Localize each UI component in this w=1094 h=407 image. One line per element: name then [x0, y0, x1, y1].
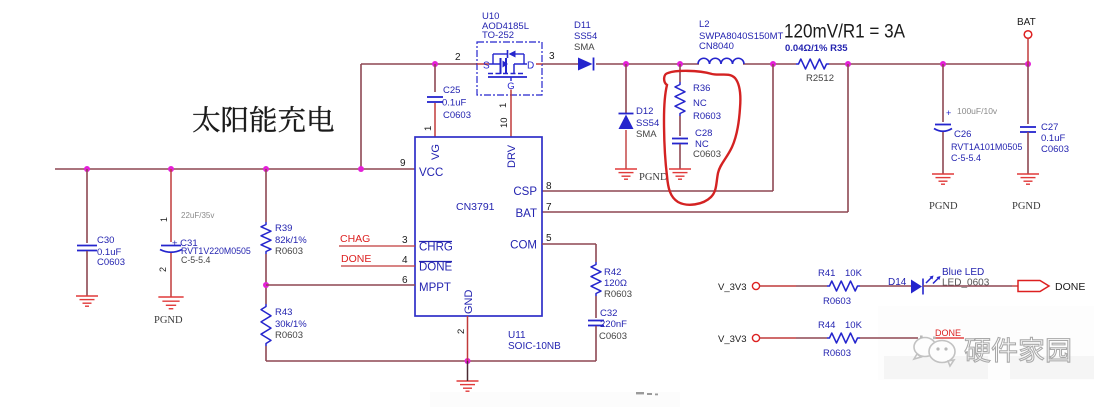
- pin number 4: [402, 255, 408, 266]
- svg-text:0.1uF: 0.1uF: [1041, 133, 1065, 144]
- wire: riser from top rail to VCC rail: [360, 64, 362, 170]
- label R44 R0603: [823, 348, 851, 359]
- svg-text:C0603: C0603: [97, 257, 125, 268]
- resistor R43: [261, 304, 271, 346]
- svg-text:C27: C27: [1041, 122, 1058, 133]
- op-amp U11 CN3791 body: [415, 137, 542, 316]
- resistor R35: [796, 59, 829, 69]
- wire: V_3V3 to R44: [760, 337, 827, 339]
- wire: D14 to DONE port: [923, 285, 1018, 287]
- svg-text:DONE: DONE: [1055, 281, 1085, 293]
- svg-text:COM: COM: [510, 240, 537, 252]
- svg-text:DRV: DRV: [506, 144, 518, 168]
- ground PGND at C26: [932, 174, 954, 184]
- label L2 SWPA8040S150MT CN8040: [699, 19, 784, 52]
- pin number 6: [402, 275, 408, 286]
- svg-text:DONE: DONE: [935, 328, 961, 338]
- pin number 5: [546, 233, 552, 244]
- label R39 82k/1% R0603: [275, 223, 307, 257]
- svg-text:PGND: PGND: [154, 315, 183, 326]
- transistor U10 P-MOSFET symbol: [477, 50, 542, 92]
- svg-text:C0603: C0603: [693, 149, 721, 160]
- wire: C25 branch from top rail: [434, 64, 436, 92]
- pin name MPPT: [419, 282, 451, 294]
- node: junction dots on VCC rail: [84, 166, 364, 172]
- svg-text:R0603: R0603: [823, 296, 851, 307]
- pin name DRV: [506, 144, 518, 168]
- wire: R41 to D14: [860, 285, 911, 287]
- svg-text:0.1uF: 0.1uF: [442, 98, 466, 109]
- svg-text:PGND: PGND: [929, 201, 958, 212]
- svg-text:2: 2: [455, 52, 461, 63]
- wire: R42 to C32: [595, 296, 597, 318]
- label R2512: [806, 73, 834, 84]
- label PGND (C31): [154, 315, 183, 326]
- svg-text:CSP: CSP: [513, 186, 537, 198]
- svg-text:CN3791: CN3791: [456, 201, 495, 213]
- svg-text:TO-252: TO-252: [482, 30, 514, 41]
- watermark text: [965, 337, 1070, 362]
- svg-text:3: 3: [402, 235, 408, 246]
- port DONE: [1018, 281, 1049, 292]
- wire: GND pin 2 stub: [467, 316, 469, 361]
- svg-text:C30: C30: [97, 235, 114, 246]
- svg-text:100uF/10v: 100uF/10v: [957, 106, 998, 116]
- pin name VCC: [419, 167, 443, 179]
- watermark icon: [914, 336, 955, 367]
- svg-text:V_3V3: V_3V3: [718, 334, 747, 345]
- svg-text:CHAG: CHAG: [340, 233, 370, 245]
- pin name VG: [430, 144, 442, 160]
- wire: C27 branch: [1027, 64, 1029, 124]
- svg-text:VG: VG: [430, 144, 442, 160]
- label D12 SS54 SMA: [636, 106, 659, 140]
- artifact grey dashes: [636, 392, 658, 395]
- label C26 RVT1A101M0505: [951, 129, 1022, 163]
- wire: R44 toward DONE: [860, 337, 918, 339]
- svg-text:DONE: DONE: [341, 253, 371, 265]
- inductor L2: [698, 58, 744, 64]
- label D14: [888, 277, 907, 288]
- label 0.04R/1% R35: [785, 43, 848, 54]
- diode D14 LED: [911, 276, 941, 295]
- svg-text:L2: L2: [699, 19, 710, 30]
- svg-text:R0603: R0603: [823, 348, 851, 359]
- pin 1 stub VG: [434, 103, 436, 137]
- wire: R36 to C28: [679, 116, 681, 136]
- svg-text:D: D: [527, 61, 534, 72]
- wire: solar input top rail: [361, 63, 1028, 65]
- svg-text:C-5-5.4: C-5-5.4: [181, 255, 210, 265]
- label DONE (port): [1055, 281, 1085, 293]
- net label DONE (red, row2): [935, 328, 964, 338]
- label D11 SS54 SMA: [574, 20, 597, 53]
- pin number 8: [546, 181, 552, 192]
- svg-text:C0603: C0603: [1041, 144, 1069, 155]
- ground PGND at C27: [1017, 174, 1039, 184]
- svg-text:CHRG: CHRG: [419, 242, 453, 254]
- svg-text:SS54: SS54: [636, 118, 659, 129]
- svg-text:R41: R41: [818, 268, 835, 279]
- svg-text:R39: R39: [275, 223, 292, 234]
- resistor R41: [827, 281, 860, 291]
- wire: R36 branch top: [679, 64, 681, 82]
- svg-text:0.04Ω/1% R35: 0.04Ω/1% R35: [785, 43, 848, 54]
- node: junction dots on top rail: [432, 61, 1031, 67]
- label CN3791: [456, 201, 495, 213]
- svg-text:D12: D12: [636, 106, 653, 117]
- svg-text:22uF/35v: 22uF/35v: [181, 211, 214, 220]
- svg-text:D14: D14: [888, 277, 907, 288]
- capacitor C32: [588, 321, 604, 326]
- resistor R39: [261, 222, 271, 254]
- svg-text:R43: R43: [275, 307, 292, 318]
- pin number 3: [402, 235, 408, 246]
- terminal V_3V3 (row2): [718, 334, 760, 345]
- svg-text:RVT1A101M0505: RVT1A101M0505: [951, 142, 1022, 152]
- svg-text:D11: D11: [574, 20, 591, 31]
- label U11 SOIC-10NB: [508, 330, 561, 352]
- diode D12: [619, 114, 634, 130]
- resistor R44: [827, 333, 860, 343]
- label C27 0.1uF C0603: [1041, 122, 1069, 155]
- svg-text:U11: U11: [508, 330, 526, 341]
- svg-text:SMA: SMA: [574, 42, 595, 53]
- svg-text:BAT: BAT: [515, 208, 537, 220]
- wire: gate to DRV: [510, 90, 512, 138]
- pin name CHRG: [419, 242, 453, 254]
- wire: COM to R42: [542, 244, 596, 262]
- wire: C31 branch: [170, 169, 172, 242]
- svg-text:1: 1: [159, 217, 169, 222]
- svg-text:10K: 10K: [845, 268, 863, 279]
- annotation red circle around R36/C28: [664, 71, 740, 205]
- label C32 220nF C0603: [599, 308, 627, 342]
- ground PGND at C28: [669, 169, 691, 179]
- svg-text:2: 2: [456, 329, 467, 334]
- label C31 RVT1V220M0505: [172, 238, 251, 265]
- svg-text:30k/1%: 30k/1%: [275, 319, 307, 330]
- svg-text:220nF: 220nF: [600, 319, 627, 330]
- svg-text:10K: 10K: [845, 320, 863, 331]
- svg-text:PGND: PGND: [1012, 201, 1041, 212]
- svg-text:3: 3: [549, 51, 555, 62]
- label C25 value: [442, 85, 471, 121]
- svg-text:R0603: R0603: [275, 330, 303, 341]
- svg-text:Blue LED: Blue LED: [942, 267, 984, 278]
- capacitor C26: [934, 108, 952, 131]
- svg-text:PGND: PGND: [639, 172, 668, 183]
- label BAT: [1017, 17, 1036, 28]
- svg-text:VCC: VCC: [419, 167, 443, 179]
- label Blue LED LED_0603: [942, 267, 990, 289]
- svg-text:C26: C26: [954, 129, 971, 140]
- svg-text:1: 1: [498, 103, 509, 108]
- svg-text:8: 8: [546, 181, 552, 192]
- resistor R42: [591, 262, 601, 296]
- label R36 NC R0603: [693, 83, 721, 122]
- annotation solar-charging heading: [193, 106, 333, 132]
- pin number 1 (C31): [159, 217, 169, 222]
- ground PGND at C31: [158, 297, 183, 309]
- pin name COM: [510, 240, 537, 252]
- svg-text:R0603: R0603: [275, 246, 303, 257]
- svg-text:CN8040: CN8040: [699, 41, 734, 52]
- svg-text:C-5-5.4: C-5-5.4: [951, 153, 981, 163]
- label 100uF/10v: [957, 106, 998, 116]
- node: MPPT divider junction: [263, 282, 269, 288]
- svg-text:R36: R36: [693, 83, 710, 94]
- pin name GND: [463, 290, 475, 315]
- label R41 R0603: [823, 296, 851, 307]
- wire: C32 to GND rail: [595, 326, 597, 361]
- ground at GND pin: [457, 361, 479, 391]
- svg-text:C0603: C0603: [599, 331, 627, 342]
- pin number 3 (MOSFET D): [549, 51, 555, 62]
- wire: D12 branch: [625, 64, 627, 169]
- svg-text:R0603: R0603: [604, 289, 632, 300]
- ground at C30: [76, 296, 98, 306]
- label R41 10K: [818, 268, 863, 279]
- svg-text:DONE: DONE: [419, 262, 453, 274]
- svg-text:C25: C25: [443, 85, 460, 96]
- svg-text:BAT: BAT: [1017, 17, 1036, 28]
- wire: C27 to ground: [1027, 132, 1029, 174]
- pin number 10 (DRV): [499, 117, 510, 128]
- svg-text:7: 7: [546, 202, 552, 213]
- svg-text:R2512: R2512: [806, 73, 834, 84]
- wire: VCC rail: [55, 168, 415, 170]
- svg-text:C32: C32: [600, 308, 617, 319]
- pin name DONE: [419, 262, 453, 274]
- svg-text:R42: R42: [604, 267, 621, 278]
- capacitor C25: [427, 97, 443, 102]
- wire: V_3V3 to R41: [760, 285, 827, 287]
- label PGND (C27): [1012, 201, 1041, 212]
- svg-text:SOIC-10NB: SOIC-10NB: [508, 341, 561, 352]
- net label DONE: [341, 253, 371, 265]
- svg-text:S: S: [483, 61, 490, 72]
- svg-text:LED_0603: LED_0603: [942, 278, 990, 289]
- label U10 AOD4185L TO-252: [482, 11, 529, 41]
- net label CHAG: [340, 233, 370, 245]
- label C28 NC C0603: [693, 128, 721, 160]
- svg-text:C28: C28: [695, 128, 712, 139]
- terminal BAT: [1024, 31, 1032, 39]
- capacitor C28: [672, 139, 688, 144]
- svg-text:R0603: R0603: [693, 111, 721, 122]
- wire: BAT sense: [542, 64, 848, 212]
- pin number 7: [546, 202, 552, 213]
- label 22uF/35v: [181, 211, 214, 220]
- wire: R39 to R43 junction: [265, 254, 267, 304]
- svg-text:82k/1%: 82k/1%: [275, 235, 307, 246]
- node: GND rail junction: [465, 358, 471, 364]
- wire: C31 to ground: [170, 253, 172, 297]
- svg-text:SMA: SMA: [636, 129, 657, 140]
- pin name BAT: [515, 208, 537, 220]
- label R42 120R R0603: [604, 267, 632, 300]
- svg-text:4: 4: [402, 255, 408, 266]
- net CHAG wire: [339, 245, 415, 247]
- transistor U10 outline box: [477, 42, 542, 95]
- terminal V_3V3 (row1): [718, 282, 760, 293]
- net DONE wire: [341, 265, 415, 267]
- label R44 10K: [818, 320, 863, 331]
- wire: BAT terminal to rail: [1027, 39, 1029, 65]
- capacitor C31: [160, 246, 182, 253]
- wire: C26 branch: [942, 64, 944, 122]
- svg-text:GND: GND: [463, 290, 475, 315]
- pin number 1 (VG): [423, 126, 434, 131]
- label PGND (D12): [639, 172, 668, 183]
- wire: R39 branch top: [265, 169, 267, 222]
- pin number 2 (MOSFET S): [455, 52, 461, 63]
- svg-text:9: 9: [400, 158, 406, 169]
- wire: CSP sense: [542, 64, 773, 191]
- pin number 9: [400, 158, 406, 169]
- svg-text:NC: NC: [693, 98, 707, 109]
- label R43 30k/1% R0603: [275, 307, 307, 341]
- wire: C30 branch: [86, 169, 88, 243]
- svg-text:MPPT: MPPT: [419, 282, 451, 294]
- svg-text:2: 2: [158, 267, 168, 272]
- pin number 1 (MOSFET G): [498, 103, 509, 108]
- capacitor C30: [77, 246, 97, 251]
- pin number 2 (C31): [158, 267, 168, 272]
- svg-text:1: 1: [423, 126, 434, 131]
- label C30 0.1uF C0603: [97, 235, 125, 268]
- svg-text:120mV/R1 = 3A: 120mV/R1 = 3A: [784, 21, 905, 43]
- pin name CSP: [513, 186, 537, 198]
- pin number 2 (GND): [456, 329, 467, 334]
- svg-text:V_3V3: V_3V3: [718, 282, 747, 293]
- svg-text:5: 5: [546, 233, 552, 244]
- svg-text:R44: R44: [818, 320, 835, 331]
- wire: MPPT net: [266, 284, 415, 286]
- svg-text:C0603: C0603: [443, 110, 471, 121]
- capacitor C27: [1020, 127, 1036, 132]
- svg-text:10: 10: [499, 117, 510, 128]
- wire: C26 to ground: [942, 132, 944, 174]
- wire: R43 bottom to GND rail: [266, 346, 596, 361]
- wire: C30 to ground: [86, 251, 88, 296]
- resistor R36: [675, 82, 685, 116]
- ground PGND at D12: [615, 169, 637, 179]
- svg-text:SS54: SS54: [574, 31, 597, 42]
- diode D11: [578, 58, 594, 71]
- label PGND (C26): [929, 201, 958, 212]
- wire: C28 to ground: [679, 144, 681, 169]
- annotation 120mV/R1 = 3A: [784, 21, 905, 43]
- svg-text:120Ω: 120Ω: [604, 278, 627, 289]
- svg-text:+: +: [946, 108, 951, 118]
